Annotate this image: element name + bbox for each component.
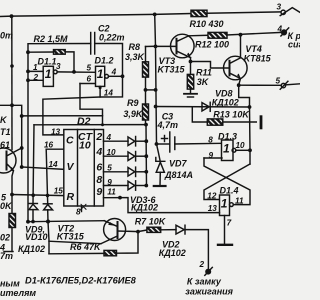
svg-text:3K: 3K	[197, 77, 210, 87]
junction node 74,71.9	[72, 70, 76, 74]
wire diode output vertical	[145, 125, 148, 186]
svg-text:КД102: КД102	[131, 203, 158, 213]
svg-text:C: C	[66, 135, 74, 147]
svg-text:1: 1	[97, 67, 104, 81]
junction node 102.5,124.7	[101, 123, 104, 126]
terminal 2	[205, 267, 213, 275]
junction node 28,80.3	[26, 78, 30, 82]
wire R5 bottom	[11, 228, 13, 252]
svg-text:4,7m: 4,7m	[157, 120, 179, 130]
junction node 146,124.6	[144, 123, 148, 127]
transistor VT1	[0, 148, 22, 214]
resistor R11	[187, 74, 193, 89]
svg-text:10: 10	[79, 140, 91, 152]
op-amp D1.2 inverter	[80, 66, 123, 86]
wire pin6 jog	[80, 84, 103, 116]
svg-text:5: 5	[87, 63, 92, 72]
diodes VD3-VD6 row	[104, 137, 147, 191]
svg-text:15: 15	[54, 187, 64, 196]
svg-text:8: 8	[76, 208, 81, 217]
diode VD10	[43, 204, 52, 254]
wire latch cross coupling	[204, 158, 250, 205]
svg-text:D1.2: D1.2	[95, 56, 114, 66]
gate numbers inside boxes	[45, 67, 230, 211]
wire D2 pin15	[12, 195, 64, 196]
wire VT4 emitter to terminal 5	[239, 79, 241, 86]
svg-text:зажигания: зажигания	[185, 287, 233, 297]
op-amp D1.3 inverter	[204, 140, 250, 161]
transistor VT3	[156, 34, 195, 58]
wire R12 to terminal 4	[227, 32, 281, 35]
svg-text:R6 47K: R6 47K	[70, 242, 102, 252]
resistor R13	[192, 107, 262, 130]
junction node 122.5,76.3	[121, 74, 125, 78]
svg-text:К замку: К замку	[187, 277, 222, 287]
terminal stub bottom left	[4, 251, 13, 253]
wire D1.4 pin7 ground	[218, 216, 232, 245]
svg-text:13: 13	[51, 128, 61, 137]
junction node 28,52.2	[26, 50, 30, 54]
svg-text:13: 13	[208, 204, 218, 213]
junction node 47.5,195.4	[46, 194, 50, 198]
svg-text:R12 100: R12 100	[195, 40, 229, 50]
terminal 3	[280, 8, 300, 16]
zener VD7	[154, 144, 166, 186]
svg-text:VD7: VD7	[169, 159, 188, 169]
junction node 21.7,167	[20, 165, 24, 169]
junction node 156.5,144	[155, 142, 159, 146]
svg-text:VD10: VD10	[25, 232, 48, 242]
svg-text:R7 10K: R7 10K	[135, 217, 167, 227]
svg-text:D1.3: D1.3	[218, 131, 237, 141]
svg-text:R11: R11	[196, 68, 212, 78]
svg-text:V: V	[67, 161, 75, 173]
svg-text:R: R	[67, 191, 75, 203]
svg-text:8: 8	[208, 136, 213, 145]
wire clock feed to D2 pin13	[43, 76, 123, 135]
wire left rail	[11, 16, 13, 149]
svg-text:10: 10	[107, 148, 117, 157]
wire LA mid	[22, 116, 103, 125]
capacitor C3	[157, 132, 175, 152]
svg-text:R9: R9	[127, 98, 139, 108]
svg-text:2: 2	[199, 260, 205, 269]
svg-text:KT315: KT315	[57, 232, 85, 242]
wire D1.2 pin14 stub	[99, 86, 101, 97]
svg-text:7m: 7m	[0, 251, 13, 261]
svg-text:9: 9	[209, 151, 214, 160]
node top rail mid	[153, 13, 157, 17]
resistor R5	[9, 214, 16, 228]
resistor R2	[28, 50, 74, 72]
junction node 12,66	[10, 64, 14, 68]
svg-text:12: 12	[207, 192, 217, 201]
svg-text:3,9K: 3,9K	[123, 109, 144, 119]
svg-text:Т1: Т1	[0, 127, 11, 137]
resistor R7	[138, 227, 176, 232]
svg-text:3: 3	[277, 3, 282, 12]
wire VT3 collector to R12	[189, 34, 208, 37]
wire x250 vertical to D1.3 out	[249, 107, 252, 164]
wire D2 pin16 from VD10	[46, 148, 64, 150]
svg-text:KT815: KT815	[244, 53, 272, 63]
junction node 48,221.5	[46, 220, 50, 224]
svg-text:5: 5	[107, 164, 112, 173]
svg-text:КД102: КД102	[159, 248, 186, 258]
junction node 155.5,46.4	[154, 45, 158, 49]
transistor VT2	[101, 219, 138, 244]
junction node 240.5,85	[237, 83, 241, 87]
wire C2 right to D1.2 out	[95, 44, 123, 77]
wire C3 to D1.3 pin8	[175, 142, 222, 145]
svg-text:0m: 0m	[0, 31, 13, 41]
wire D2 pin11 to D1.4 pin13	[104, 198, 220, 213]
wire VT3 emitter node	[190, 58, 192, 75]
junction node 21.7,116	[20, 114, 24, 118]
svg-text:ным: ным	[0, 279, 20, 289]
svg-text:6: 6	[87, 74, 92, 83]
diode VD9	[29, 204, 38, 222]
svg-text:Д814А: Д814А	[164, 170, 193, 180]
svg-text:14: 14	[49, 160, 59, 169]
junction node 190.5,61.5	[189, 60, 193, 64]
resistor R8	[143, 46, 156, 90]
svg-text:D1.1: D1.1	[38, 57, 57, 67]
svg-text:3: 3	[56, 62, 61, 71]
op-amp D1.1 inverter	[28, 66, 96, 86]
junction node 33.2,195.2	[31, 193, 35, 197]
svg-text:9: 9	[107, 178, 112, 187]
svg-text:КД102: КД102	[212, 97, 239, 107]
IC D2 counter	[64, 130, 104, 207]
transistor VT4	[224, 56, 248, 80]
svg-text:KT315: KT315	[158, 64, 186, 74]
svg-text:11: 11	[235, 197, 244, 206]
svg-text:R10 430: R10 430	[190, 19, 224, 29]
junction node 28,221.7	[26, 220, 30, 224]
svg-text:61: 61	[0, 140, 10, 150]
svg-text:R2 1,5M: R2 1,5M	[34, 34, 69, 44]
wire VD10 top vertical	[46, 149, 48, 204]
svg-text:1: 1	[45, 67, 52, 81]
svg-text:1: 1	[223, 142, 230, 156]
junction node 284,32.4	[282, 30, 287, 35]
junction node 100.1,87.8	[99, 86, 102, 89]
svg-text:ителям: ителям	[0, 288, 36, 298]
svg-text:1: 1	[33, 63, 38, 72]
wire main vertical x155	[155, 14, 157, 144]
svg-text:КД102: КД102	[18, 244, 45, 254]
resistor R9	[143, 90, 149, 125]
svg-text:2: 2	[33, 73, 39, 82]
svg-text:3,3K: 3,3K	[125, 52, 146, 62]
junction node 145.5,89.9	[144, 88, 148, 92]
junction node 155.6,106.5	[154, 105, 158, 109]
wire top supply rail	[0, 14, 191, 17]
junction node 146.3,171.8	[144, 170, 148, 174]
junction node 12,105.3	[10, 103, 14, 107]
node top rail left	[10, 14, 14, 18]
svg-text:R8: R8	[129, 42, 141, 52]
wire VT3 to VT4 base	[191, 62, 230, 69]
junction node 249.5,107	[248, 105, 252, 109]
svg-text:D2: D2	[77, 116, 91, 128]
junction node 33,221.6	[31, 220, 35, 224]
junction node 240.5,34.7	[239, 33, 243, 37]
resistor R12	[208, 32, 227, 38]
svg-text:7: 7	[227, 219, 232, 228]
svg-text:6: 6	[96, 161, 102, 173]
svg-text:9: 9	[96, 186, 102, 198]
wire LB to R9	[34, 124, 146, 126]
wire VT4 collector	[240, 35, 242, 58]
junction node 138,231.6	[136, 230, 140, 234]
svg-text:14: 14	[104, 88, 114, 97]
junction node 28,71.4	[26, 70, 30, 74]
resistor R10	[191, 10, 207, 16]
svg-text:2: 2	[95, 131, 102, 143]
terminal 5	[280, 81, 300, 89]
svg-text:4: 4	[95, 146, 102, 158]
junction node 146.3,185.5	[144, 184, 148, 188]
svg-text:02: 02	[0, 233, 10, 243]
svg-text:4: 4	[106, 133, 112, 142]
svg-text:0K: 0K	[0, 201, 13, 211]
svg-text:8: 8	[96, 174, 102, 186]
junction node 12,194.5	[10, 193, 14, 197]
op-amp D1.4 inverter	[220, 195, 234, 216]
junction node 120,197.6	[118, 196, 122, 200]
terminal 4	[281, 28, 289, 36]
svg-text:4: 4	[111, 67, 117, 76]
svg-text:сиг: сиг	[288, 40, 300, 50]
svg-text:4: 4	[277, 24, 283, 33]
wire R8 bottom to main vertical	[146, 89, 156, 91]
wire VT2 emitter left	[49, 241, 101, 244]
junction node 146.3,156.2	[144, 154, 148, 158]
wire C2 input node	[28, 44, 91, 222]
diode VD8	[202, 102, 210, 111]
svg-text:1: 1	[221, 197, 228, 211]
wire stub left y105	[0, 105, 64, 169]
svg-text:0,22m: 0,22m	[99, 33, 125, 43]
svg-text:10: 10	[236, 141, 246, 150]
wire R10 to terminal 3	[207, 12, 281, 13]
capacitor C2	[91, 33, 95, 55]
svg-text:5: 5	[276, 77, 281, 86]
wire collector line y221	[28, 221, 104, 222]
junction node 21.7,148	[20, 146, 24, 150]
junction node 155.6,89.9	[154, 88, 158, 92]
junction node 146.3,141.2	[144, 139, 148, 143]
resistor R6	[49, 232, 138, 256]
svg-text:16: 16	[44, 140, 54, 149]
svg-text:R13 10K: R13 10K	[213, 110, 250, 120]
svg-text:D1-К176ЛЕ5,D2-К176ИЕ8: D1-К176ЛЕ5,D2-К176ИЕ8	[25, 276, 137, 286]
svg-text:D1.4: D1.4	[220, 186, 239, 196]
diode VD8 line	[156, 106, 250, 109]
svg-text:11: 11	[107, 187, 116, 196]
wire VD9 top vertical	[33, 125, 34, 204]
diode VD2	[176, 225, 208, 269]
ground R11	[184, 89, 197, 97]
D2 pin8 stub	[81, 206, 83, 212]
junction node 250,150.3	[248, 148, 252, 152]
junction node 208.2,271.6	[206, 269, 211, 274]
wire VT4 emitter down to VD8 line	[239, 85, 250, 107]
